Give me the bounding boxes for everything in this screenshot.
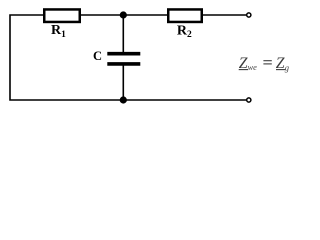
svg-text:C: C xyxy=(93,49,102,63)
svg-text:we: we xyxy=(248,63,258,72)
svg-text:g: g xyxy=(285,63,289,73)
